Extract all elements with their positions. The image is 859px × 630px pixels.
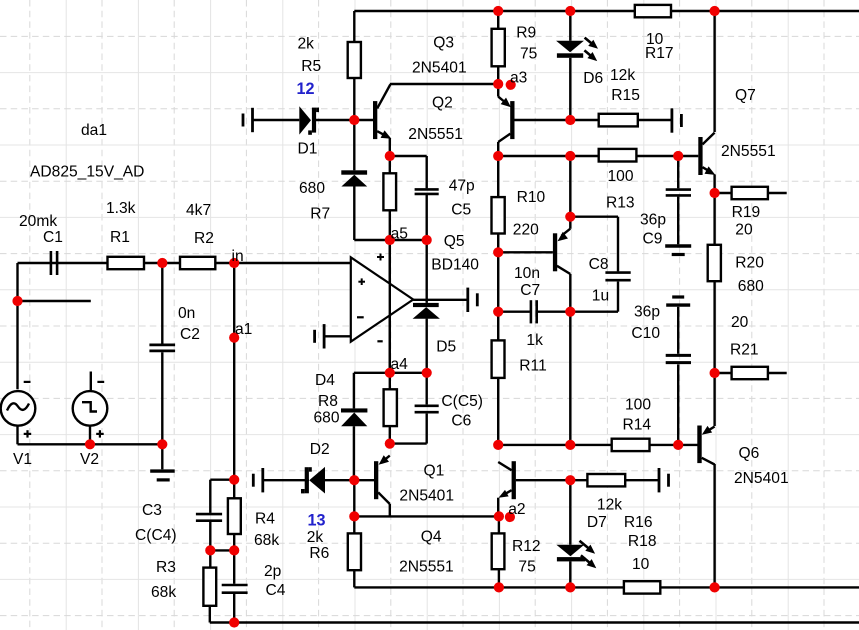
wire a2 horizontal bbox=[354, 515, 499, 517]
svg-text:D1: D1 bbox=[298, 141, 318, 158]
svg-text:R10: R10 bbox=[517, 189, 546, 206]
label 680 bbox=[738, 278, 764, 295]
svg-text:2k: 2k bbox=[298, 36, 315, 53]
capacitor C2 0n bbox=[149, 345, 175, 351]
wire D2 junction to Q1 base bbox=[354, 479, 374, 481]
svg-text:12k: 12k bbox=[610, 67, 635, 84]
label 12k bbox=[597, 497, 622, 514]
wire Q5 collector column down bbox=[569, 312, 571, 445]
label 68k bbox=[151, 584, 176, 601]
transistor Q2 2N5551 (NPN) bbox=[373, 85, 391, 157]
junction top rail / D6 bbox=[565, 6, 575, 16]
wire D6 stems bbox=[569, 11, 571, 120]
svg-text:75: 75 bbox=[518, 558, 536, 575]
wire input source rail bbox=[18, 262, 108, 264]
label C2 bbox=[180, 326, 200, 343]
svg-text:Q5: Q5 bbox=[444, 233, 465, 250]
svg-text:Q4: Q4 bbox=[421, 529, 442, 546]
resistor R21 20 bbox=[732, 367, 768, 379]
label 12k bbox=[610, 67, 635, 84]
capacitor C7 10n bbox=[531, 300, 537, 323]
wire D5 to a4 bbox=[426, 319, 428, 373]
svg-text:R20: R20 bbox=[735, 254, 764, 271]
label C7 bbox=[520, 282, 540, 299]
wire R6 stems bbox=[353, 516, 355, 587]
label C10 bbox=[631, 325, 660, 342]
label 75 bbox=[518, 558, 536, 575]
wire R4 to C4 bbox=[233, 550, 235, 583]
capacitor C3 C(C4) bbox=[196, 514, 222, 521]
wire R4 stems bbox=[233, 480, 235, 551]
label C1 bbox=[43, 229, 63, 246]
wire a4 horizontal bbox=[354, 372, 427, 374]
label R6 bbox=[309, 545, 329, 562]
resistor R2 4k7 bbox=[180, 257, 215, 269]
svg-text:Q3: Q3 bbox=[433, 35, 454, 52]
label 4k7 bbox=[186, 202, 211, 219]
label R7 bbox=[310, 205, 330, 222]
resistor R19 20 bbox=[732, 187, 768, 199]
terminal at D1 input bbox=[243, 108, 253, 132]
junction R10 / Q5 base bbox=[493, 247, 503, 257]
label 1.3k bbox=[106, 200, 136, 217]
wire C5/D5 column a5 to D5 bbox=[426, 240, 428, 303]
label Q5 bbox=[444, 233, 465, 250]
node a3 label dot bbox=[506, 80, 516, 90]
label 20 bbox=[735, 222, 753, 239]
wire inverting input terminal bbox=[324, 335, 351, 337]
svg-text:Q7: Q7 bbox=[735, 87, 756, 104]
capacitor C5 47p bbox=[415, 189, 439, 194]
svg-text:a4: a4 bbox=[391, 356, 409, 373]
label 75 bbox=[520, 46, 538, 63]
svg-text:C(C4): C(C4) bbox=[135, 527, 177, 544]
wire C6 stems bbox=[426, 373, 428, 444]
wire C1 left corner down bbox=[16, 263, 18, 389]
svg-text:20: 20 bbox=[731, 314, 749, 331]
junction top rail / Q7 bbox=[710, 6, 720, 16]
label 0n bbox=[178, 305, 195, 322]
label 680 bbox=[299, 180, 325, 197]
label V1 bbox=[13, 451, 32, 468]
svg-text:AD825_15V_AD: AD825_15V_AD bbox=[30, 164, 144, 181]
svg-text:680: 680 bbox=[738, 278, 764, 295]
resistor R13 100 bbox=[599, 149, 637, 162]
label R9 bbox=[516, 24, 536, 41]
label C3 bbox=[142, 502, 162, 519]
wire Q6 emitter column bbox=[713, 373, 715, 426]
label 2N5401 bbox=[399, 488, 454, 505]
wire top supply rail bbox=[354, 10, 859, 12]
resistor R16 12k bbox=[587, 474, 625, 486]
label R21 bbox=[730, 342, 759, 359]
svg-text:R9: R9 bbox=[516, 24, 536, 41]
label V2 bbox=[80, 451, 99, 468]
resistor R14 100 bbox=[612, 439, 650, 451]
node a2 junction bbox=[494, 511, 504, 521]
LED D7 bbox=[556, 541, 596, 569]
label 220 bbox=[513, 222, 539, 239]
wire V2 minus terminal bbox=[90, 372, 92, 392]
wire R7 stems bbox=[389, 156, 391, 240]
wire V1 to bottom bbox=[18, 426, 91, 445]
junction R21 / R20 / Q6 emitter bbox=[710, 368, 720, 378]
transistor Q7 2N5551 (NPN) bbox=[698, 133, 715, 175]
svg-text:36p: 36p bbox=[640, 212, 666, 229]
svg-text:R3: R3 bbox=[156, 559, 176, 576]
resistor R1 1.3k bbox=[108, 257, 145, 269]
wire D1 junction down to D3 bbox=[353, 120, 355, 170]
wire bottom rail 2 bbox=[210, 621, 859, 623]
junction D1 / R5 / Q2 base bbox=[349, 115, 359, 125]
diode D2 (zener, anode right) bbox=[301, 467, 325, 494]
diode D4 (pointing up) bbox=[341, 408, 367, 426]
node a5 dot R7 column bbox=[385, 235, 395, 245]
svg-text:C10: C10 bbox=[631, 325, 660, 342]
label R3 bbox=[156, 559, 176, 576]
resistor R18 10 bbox=[624, 581, 660, 593]
label 2k bbox=[307, 529, 324, 546]
junction Q4 base / R16 / D7 bbox=[565, 475, 575, 485]
resistor R9 75 bbox=[492, 29, 505, 67]
svg-text:V2: V2 bbox=[80, 451, 99, 468]
transistor Q6 2N5401 (PNP) bbox=[697, 426, 714, 465]
svg-text:2N5551: 2N5551 bbox=[408, 126, 463, 143]
wire V1 stub bbox=[18, 300, 91, 302]
label 10n bbox=[514, 265, 540, 282]
svg-text:R13: R13 bbox=[606, 195, 635, 212]
junction C7 row left bbox=[493, 307, 503, 317]
wire op-amp supply column (redraw over op-amp) bbox=[389, 240, 391, 373]
wire a5 to C5 column bbox=[390, 239, 427, 241]
svg-text:10n: 10n bbox=[514, 265, 540, 282]
resistor R7 680 bbox=[383, 173, 396, 210]
svg-text:R18: R18 bbox=[628, 533, 657, 550]
resistor R11 1k bbox=[492, 340, 505, 378]
transistor Q1 2N5401 (PNP) bbox=[374, 455, 390, 516]
wire R15 to terminal bbox=[638, 119, 672, 121]
label Q1 bbox=[424, 463, 445, 480]
label R18 bbox=[628, 533, 657, 550]
wire Q2 collector to a3 bbox=[390, 83, 498, 85]
svg-text:Q2: Q2 bbox=[432, 95, 453, 112]
label AD825_15V_AD bbox=[30, 164, 144, 181]
svg-text:a3: a3 bbox=[510, 70, 527, 87]
junction mid rail / C9 bbox=[673, 151, 683, 161]
capacitor C10 36p bbox=[666, 355, 691, 362]
label 2N5401 bbox=[734, 470, 789, 487]
svg-text:4k7: 4k7 bbox=[186, 202, 211, 219]
svg-text:R15: R15 bbox=[611, 87, 640, 104]
svg-text:1.3k: 1.3k bbox=[106, 200, 136, 217]
wire R19 right bbox=[768, 192, 787, 194]
label 10 bbox=[646, 31, 664, 48]
label 2p bbox=[264, 563, 282, 580]
svg-text:R4: R4 bbox=[255, 511, 275, 528]
svg-text:C9: C9 bbox=[643, 231, 663, 248]
label C6 bbox=[451, 413, 471, 430]
voltage source V1 (sine) bbox=[1, 382, 36, 438]
wire a5 down through op-amp to a4 bbox=[389, 240, 391, 373]
label R14 bbox=[623, 417, 652, 434]
svg-text:1k: 1k bbox=[526, 332, 543, 349]
svg-text:C3: C3 bbox=[142, 502, 162, 519]
svg-text:R5: R5 bbox=[301, 58, 321, 75]
transistor Q3 2N5401 (PNP) bbox=[498, 97, 514, 142]
wire Q5 emitter column bbox=[569, 156, 571, 229]
junction V2 minus rail bbox=[85, 439, 95, 449]
wire a4 corner down to D4 bbox=[353, 373, 355, 409]
terminal right of R15 bbox=[672, 108, 682, 132]
diode D3 (pointing up) bbox=[341, 170, 367, 186]
wire C8 bottom link bbox=[570, 282, 618, 312]
svg-text:12k: 12k bbox=[597, 497, 622, 514]
terminal at op-amp output bbox=[468, 288, 478, 312]
svg-text:D2: D2 bbox=[310, 441, 330, 458]
junction R4 / C4 bbox=[229, 545, 239, 555]
label 10 bbox=[632, 556, 650, 573]
wire R14 row bbox=[498, 444, 699, 446]
svg-text:13: 13 bbox=[308, 511, 326, 529]
junction mid rail / Q5 bbox=[565, 151, 575, 161]
resistor R5 2k bbox=[348, 42, 361, 78]
wire mid rail Q3 collector to Q7 base bbox=[498, 155, 698, 157]
wire a1 column bbox=[233, 263, 235, 480]
wire C10 stems bbox=[677, 307, 679, 445]
node a4 dot R8 column bbox=[385, 368, 395, 378]
node number 12 (blue) bbox=[297, 80, 315, 98]
svg-text:in: in bbox=[232, 248, 244, 265]
label D5 bbox=[436, 339, 456, 356]
svg-text:C1: C1 bbox=[43, 229, 63, 246]
node a2 label dot bbox=[505, 512, 515, 522]
wire D2 to junction bbox=[325, 479, 354, 481]
capacitor C6 C(C5) bbox=[415, 406, 439, 412]
svg-text:R11: R11 bbox=[519, 357, 546, 374]
label D6 bbox=[583, 70, 603, 87]
label R20 bbox=[735, 254, 764, 271]
svg-text:220: 220 bbox=[513, 222, 539, 239]
label R13 bbox=[606, 195, 635, 212]
wire C2 stems bbox=[161, 263, 163, 469]
svg-text:20: 20 bbox=[735, 222, 753, 239]
resistor R12 75 bbox=[492, 533, 505, 569]
resistor R17 10 bbox=[635, 5, 671, 17]
svg-text:BD140: BD140 bbox=[431, 257, 479, 274]
svg-text:2p: 2p bbox=[264, 563, 282, 580]
svg-text:2N5401: 2N5401 bbox=[412, 60, 467, 77]
label C5 bbox=[451, 202, 471, 219]
svg-text:D6: D6 bbox=[583, 70, 603, 87]
label R12 bbox=[512, 538, 541, 555]
svg-text:36p: 36p bbox=[634, 304, 660, 321]
wire a1 junction to C3 bbox=[210, 480, 234, 513]
capacitor C8 1u bbox=[605, 273, 630, 281]
wire R5 bottom to D1 junction bbox=[353, 78, 355, 120]
label R16 bbox=[624, 514, 653, 531]
diode D1 (zener, anode left) bbox=[299, 106, 319, 135]
LED D6 bbox=[556, 38, 598, 62]
svg-text:2N5551: 2N5551 bbox=[399, 558, 454, 575]
svg-text:a5: a5 bbox=[391, 226, 409, 243]
junction R14 / C10 bbox=[673, 440, 683, 450]
wire C3-C4 junction link bbox=[210, 549, 234, 551]
voltage source V2 (square) bbox=[73, 382, 108, 438]
wire C8 top link bbox=[570, 217, 618, 272]
svg-text:R14: R14 bbox=[623, 417, 652, 434]
svg-text:R8: R8 bbox=[318, 393, 338, 410]
label in bbox=[232, 248, 244, 265]
wire R5 top stem bbox=[353, 11, 355, 42]
label 20mk bbox=[19, 213, 57, 230]
capacitor C4 2p bbox=[222, 585, 248, 593]
ground below C9 bbox=[665, 246, 691, 255]
label 68k bbox=[254, 532, 279, 549]
label C(C5) bbox=[441, 393, 483, 410]
svg-text:a1: a1 bbox=[235, 321, 252, 338]
label Q6 bbox=[739, 445, 760, 462]
svg-text:Q1: Q1 bbox=[424, 463, 445, 480]
wire R20 stems bbox=[713, 193, 715, 373]
node a1 bbox=[229, 333, 239, 343]
label R2 bbox=[194, 230, 214, 247]
junction D2 / D4 / Q1 base bbox=[349, 475, 359, 485]
label C(C4) bbox=[135, 527, 177, 544]
wire D3 to a5 corner bbox=[354, 186, 390, 240]
svg-text:R16: R16 bbox=[624, 514, 653, 531]
junction R1 / R2 / C2 bbox=[157, 258, 167, 268]
terminal right of R16 bbox=[659, 468, 669, 492]
wire C4 bottom to rail bbox=[233, 594, 235, 623]
junction a2 link bbox=[349, 511, 359, 521]
svg-text:V1: V1 bbox=[13, 451, 32, 468]
label Q4 bbox=[421, 529, 442, 546]
wire Q7 collector column bbox=[713, 11, 715, 132]
junction Q2 emitter / R7 / C5 bbox=[385, 151, 395, 161]
wire R9 stems bbox=[497, 11, 499, 84]
node a4 dot C6 column bbox=[422, 368, 432, 378]
svg-text:R17: R17 bbox=[645, 45, 674, 62]
label 2N5551 bbox=[399, 558, 454, 575]
op-amp U1 (AD825) bbox=[351, 254, 413, 342]
terminal at D2 input bbox=[253, 468, 262, 492]
resistor R6 2k bbox=[348, 533, 361, 570]
wire Q4 base row bbox=[516, 479, 588, 481]
label 2N5401 bbox=[412, 60, 467, 77]
ground below C2 bbox=[150, 471, 175, 480]
resistor R4 68k bbox=[228, 498, 241, 534]
node a3 junction bbox=[493, 79, 503, 89]
svg-text:R1: R1 bbox=[110, 229, 130, 246]
wire D2 junction down bbox=[353, 480, 355, 516]
capacitor C9 36p bbox=[666, 190, 691, 196]
wire R21 row bbox=[715, 372, 787, 374]
label 36p bbox=[634, 304, 660, 321]
wire Q7 emitter to R19 bbox=[715, 174, 732, 193]
junction mid rail / R10 bbox=[493, 151, 503, 161]
wire input terminal to D1 bbox=[253, 119, 300, 121]
label 680 bbox=[314, 410, 340, 427]
wire R3 stems bbox=[209, 550, 212, 622]
diode D5 (pointing up) bbox=[413, 303, 440, 319]
label C4 bbox=[266, 582, 286, 599]
resistor R15 12k bbox=[599, 114, 638, 127]
svg-text:R19: R19 bbox=[732, 204, 761, 221]
wire R1 to R2 bbox=[144, 262, 180, 264]
label a4 bbox=[391, 356, 409, 373]
resistor R8 680 bbox=[384, 389, 397, 426]
junction R14 / Q5 column bbox=[565, 440, 575, 450]
wire R10 stems bbox=[497, 156, 499, 252]
label a5 bbox=[391, 226, 409, 243]
junction C3 / R3 bbox=[205, 545, 215, 555]
svg-text:R7: R7 bbox=[310, 205, 330, 222]
label 47p bbox=[449, 178, 475, 195]
junction rail2 / C4 bbox=[229, 617, 239, 627]
label 2N5551 bbox=[721, 143, 776, 160]
node number 13 (blue) bbox=[308, 511, 326, 529]
label Q7 bbox=[735, 87, 756, 104]
label R15 bbox=[611, 87, 640, 104]
svg-text:0n: 0n bbox=[178, 305, 195, 322]
junction Q5 emitter / C8 bbox=[565, 212, 575, 222]
wire op-amp output bbox=[413, 299, 468, 301]
junction R8 / C6 / Q1 emitter bbox=[385, 439, 395, 449]
resistor R20 680 bbox=[708, 245, 721, 281]
junction rail1 / Q6 bbox=[710, 582, 720, 592]
wire Q2 emitter junction to C5 top bbox=[390, 156, 427, 188]
svg-text:68k: 68k bbox=[151, 584, 176, 601]
wire D4 to D2 junction bbox=[353, 426, 355, 480]
junction Q7 emitter / R19 / R20 bbox=[710, 188, 720, 198]
label 2k bbox=[298, 36, 315, 53]
svg-text:100: 100 bbox=[625, 397, 651, 414]
label 20 bbox=[731, 314, 749, 331]
wire D1 to Q2 base junction bbox=[316, 119, 373, 121]
svg-text:47p: 47p bbox=[449, 178, 475, 195]
wire R8 stems bbox=[389, 373, 391, 444]
label D4 bbox=[315, 372, 335, 389]
svg-text:2N5401: 2N5401 bbox=[734, 470, 789, 487]
svg-text:2N5551: 2N5551 bbox=[721, 143, 776, 160]
svg-text:Q6: Q6 bbox=[739, 445, 760, 462]
wire Q3 collector stem bbox=[497, 142, 499, 156]
ground above C10 (inverted) bbox=[666, 297, 690, 305]
wire R12 stems bbox=[498, 516, 500, 587]
svg-text:10: 10 bbox=[632, 556, 650, 573]
wire D2 terminal to D2 bbox=[263, 479, 309, 481]
label R10 bbox=[517, 189, 546, 206]
resistor R10 220 bbox=[492, 197, 505, 233]
svg-text:R12: R12 bbox=[512, 538, 541, 555]
label 36p bbox=[640, 212, 666, 229]
svg-text:68k: 68k bbox=[254, 532, 279, 549]
capacitor C1 20mk bbox=[51, 251, 57, 275]
label 1k bbox=[526, 332, 543, 349]
terminal at op-amp inverting input bbox=[315, 324, 325, 348]
svg-text:C(C5): C(C5) bbox=[441, 393, 483, 410]
wire a3 down to Q3 emitter bbox=[497, 84, 499, 97]
junction rail1 / R12 bbox=[494, 582, 504, 592]
label a3 bbox=[510, 70, 527, 87]
wire Q5 collector stem bbox=[569, 274, 571, 312]
label 2N5551 bbox=[408, 126, 463, 143]
wire bottom rail 1 bbox=[354, 586, 859, 588]
svg-text:C4: C4 bbox=[266, 582, 286, 599]
transistor Q4 2N5551 (NPN) bbox=[498, 461, 516, 516]
label R11 bbox=[519, 357, 546, 374]
wire C3 to R3 junction bbox=[209, 522, 211, 551]
